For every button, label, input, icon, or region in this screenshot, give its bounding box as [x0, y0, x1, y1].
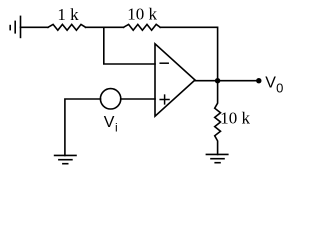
wire R1 to node A to R2 [86, 26, 124, 28]
wire node A down to inverting input [104, 27, 155, 64]
op-amp U1 minus sign [160, 62, 168, 64]
node output junction dot [215, 78, 220, 83]
wire op-amp output to V0 terminal [195, 80, 259, 82]
op-amp U1 (triangle) [155, 44, 195, 116]
wire ground G1 to resistor R1 [21, 26, 49, 28]
ground G1 (input ground, left, rotated) [10, 16, 20, 37]
resistor R3 10k (vertical zigzag) [215, 81, 221, 155]
ground G2 (bottom left) [55, 155, 76, 163]
svg-text:10 k: 10 k [127, 5, 157, 24]
wire feedback R2 to output node (top right corner) [160, 27, 217, 80]
svg-text:Vi: Vi [104, 114, 118, 135]
terminal dot V0 [256, 78, 261, 83]
resistor R1 1k (horizontal zigzag) [48, 24, 86, 30]
source VI (circle) [100, 89, 120, 109]
wire source VI left to ground branch [65, 99, 101, 155]
svg-text:V0: V0 [265, 75, 283, 96]
svg-text:10 k: 10 k [220, 109, 250, 128]
resistor R2 10k (feedback, horizontal zigzag) [124, 24, 161, 30]
wire source VI to non-inverting input [121, 98, 155, 100]
op-amp U1 plus sign [160, 95, 169, 104]
svg-text:1 k: 1 k [57, 5, 79, 24]
ground G3 (bottom right) [206, 154, 227, 162]
